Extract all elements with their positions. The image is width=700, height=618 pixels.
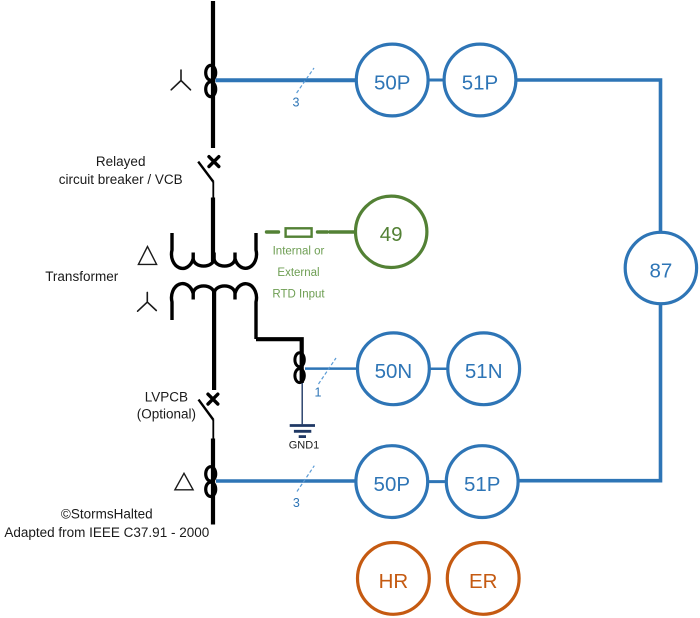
wire: below LVPCB [212,420,214,440]
RTD element box [286,228,312,236]
svg-text:Relayed: Relayed [96,154,146,169]
relay 87 differential [625,232,696,303]
wire: ground lead (navy) [301,383,303,424]
svg-text:51N: 51N [465,360,503,383]
svg-text:©StormsHalted: ©StormsHalted [61,507,153,522]
svg-text:51P: 51P [464,473,500,496]
breaker VCB blade [198,162,213,182]
CT1 current transformer (top, phase CT) [206,65,216,96]
green dash (left of RTD box) [267,230,279,233]
svg-text:1: 1 [315,386,322,400]
wire: secondary right lead to neutral CT [256,339,302,383]
relay 51P (bottom) [446,446,518,518]
svg-text:Adapted from IEEE C37.91 - 200: Adapted from IEEE C37.91 - 2000 [4,525,209,540]
delta symbol (primary) [138,247,156,265]
svg-text:51P: 51P [462,71,498,94]
relay 50P (top) [356,44,428,116]
wire: to bottom CT and end [211,439,215,525]
relay 50N [358,333,430,405]
wire: 87 to bottom corner [520,304,661,481]
slash (1-phase mark, neutral) [319,358,337,384]
wire: secondary center down to LVPCB [212,291,216,391]
svg-text:49: 49 [380,223,403,246]
svg-text:RTD Input: RTD Input [272,289,325,301]
svg-text:50N: 50N [375,360,413,383]
svg-text:87: 87 [649,259,672,282]
svg-text:ER: ER [469,570,497,593]
wire: 51P to 87 (right top corner) [516,80,661,233]
breaker VCB (X mark) [209,157,219,167]
wire: connector bottom 50P-51P [428,480,447,483]
relay 51N [448,333,520,405]
green dash (right of RTD box) [318,230,328,233]
svg-text:HR: HR [379,570,409,593]
CT2 neutral current transformer [295,353,304,383]
wire: bottom blue tap CT3 to 50P [216,479,356,483]
svg-text:LVPCB: LVPCB [145,390,188,405]
svg-text:GND1: GND1 [289,440,320,452]
svg-text:3: 3 [293,496,300,510]
CT3 current transformer (bottom, LV phase CT) [206,467,216,497]
green wire: 49 to RTD [329,230,356,233]
svg-text:circuit breaker / VCB: circuit breaker / VCB [59,172,183,187]
slash (3-phase mark, top) [297,68,314,93]
ground GND1 [290,426,315,437]
svg-text:50P: 50P [374,473,410,496]
wire: neutral tap CT2 to 50N [305,367,359,370]
slash (3-phase mark, bottom) [297,466,314,492]
wye symbol (secondary) [138,292,157,311]
svg-text:Transformer: Transformer [45,269,119,284]
breaker LVPCB blade [199,400,214,420]
transformer T1 primary winding [171,233,256,268]
svg-text:(Optional): (Optional) [137,407,196,422]
wire: connector 50P-51P top [428,79,445,82]
wire: below VCB [212,182,214,199]
wye symbol (CT1 connection) [171,70,190,90]
svg-text:Internal or: Internal or [273,246,325,258]
transformer T1 secondary winding [171,284,256,339]
svg-text:External: External [277,267,319,279]
relay 49 thermal [356,196,427,267]
wire: to transformer primary [211,198,215,262]
wire: connector 50N-51N [429,368,448,371]
wire: top blue tap CT1 to 50P [216,78,357,82]
relay 50P (bottom) [356,446,428,518]
relay 51P (top) [444,44,516,116]
svg-text:3: 3 [293,96,300,110]
relay ER (electrical reset lockout) [447,543,519,615]
delta symbol (bottom CT connection) [175,473,193,490]
svg-text:50P: 50P [374,71,410,94]
wire: main feeder bus (top vertical) [211,1,215,148]
breaker LVPCB (X mark) [208,394,218,404]
relay HR (hand reset lockout) [358,543,430,615]
